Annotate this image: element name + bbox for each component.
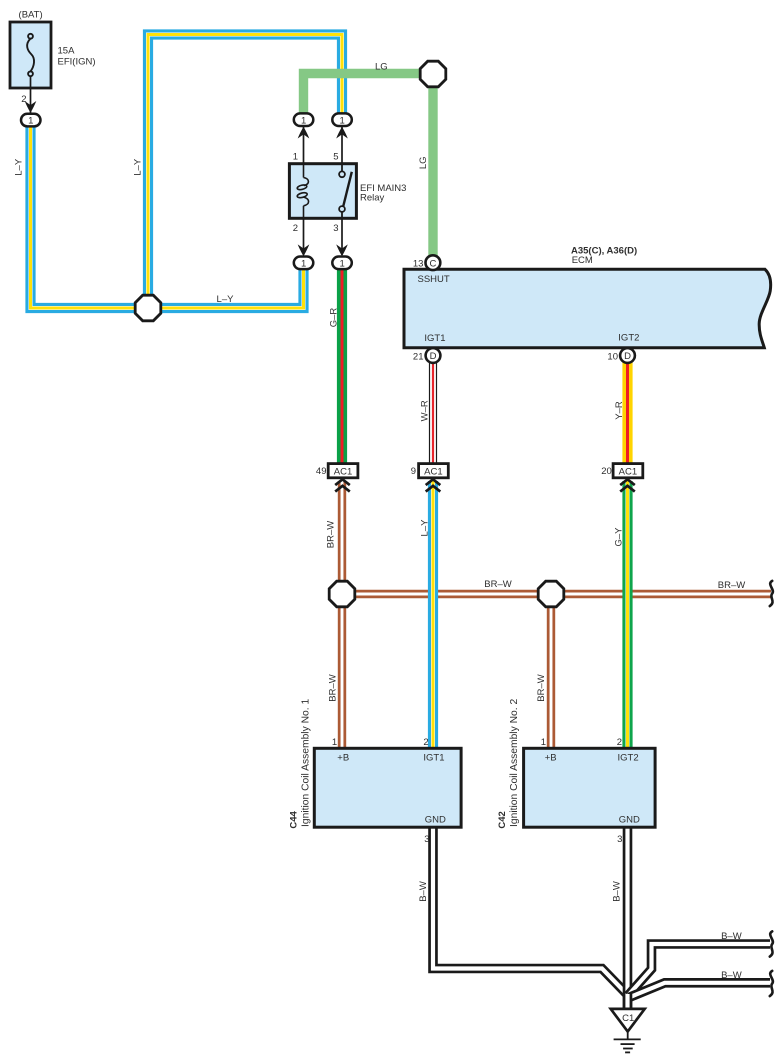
junction octagon BR-W no.2	[538, 581, 564, 607]
double chevron arrow below AC1-20	[620, 479, 635, 491]
svg-text:IGT1: IGT1	[424, 333, 445, 344]
break squiggle B-W lower right	[770, 971, 773, 996]
svg-text:1: 1	[293, 151, 298, 162]
svg-text:B–W: B–W	[611, 881, 622, 902]
junction octagon L-Y	[135, 295, 161, 321]
EFI MAIN3 relay box	[289, 164, 356, 219]
svg-text:2: 2	[423, 737, 428, 748]
svg-text:2: 2	[21, 94, 26, 105]
svg-text:13: 13	[413, 259, 424, 270]
svg-text:C44: C44	[289, 810, 300, 828]
connector oval 1 above relay pin 1	[294, 113, 314, 126]
fuse element symbol	[27, 34, 34, 76]
svg-text:B–W: B–W	[418, 881, 429, 902]
wire G-Y AC1-20 down to coil2 IGT2	[622, 481, 632, 748]
relay coil symbol	[297, 164, 309, 219]
svg-text:AC1: AC1	[424, 466, 442, 477]
svg-text:B–W: B–W	[721, 931, 742, 942]
svg-text:C42: C42	[497, 811, 508, 828]
svg-text:L–Y: L–Y	[420, 519, 431, 537]
connector circle 13 C	[426, 255, 441, 270]
svg-text:SSHUT: SSHUT	[418, 274, 450, 285]
earth ground symbol	[614, 1032, 641, 1053]
svg-text:GND: GND	[425, 815, 446, 826]
svg-text:3: 3	[617, 834, 622, 845]
svg-text:C1: C1	[622, 1013, 634, 1024]
connector AC1 no.9	[419, 464, 449, 478]
svg-text:G–R: G–R	[328, 308, 339, 328]
svg-text:D: D	[430, 351, 437, 362]
connector circle 10 D	[620, 348, 635, 363]
svg-text:3: 3	[333, 223, 338, 234]
svg-text:W–R: W–R	[419, 400, 430, 421]
connector circle 21 D	[426, 348, 441, 363]
svg-text:1: 1	[332, 737, 337, 748]
relay pin 1 lead and arrow up into connector	[303, 127, 305, 164]
svg-text:GND: GND	[619, 815, 640, 826]
relay switch symbol	[339, 164, 352, 219]
ignition coil assembly no.2 box C42	[524, 748, 656, 827]
svg-text:1: 1	[301, 258, 306, 269]
svg-text:1: 1	[541, 737, 546, 748]
svg-text:AC1: AC1	[619, 466, 637, 477]
wire B-W branch lower right to ground C1	[629, 983, 770, 998]
connector AC1 no.20	[613, 464, 643, 478]
svg-text:BR–W: BR–W	[536, 674, 547, 701]
break squiggle B-W upper right	[770, 931, 773, 956]
svg-text:Ignition Coil Assembly No. 2: Ignition Coil Assembly No. 2	[509, 699, 520, 827]
svg-text:IGT2: IGT2	[618, 333, 639, 344]
junction octagon BR-W no.1	[329, 581, 355, 607]
connector oval 1 below relay pin 2	[294, 257, 314, 270]
connector oval 1 above relay pin 5	[332, 113, 352, 126]
ignition coil assembly no.1 box C44	[314, 748, 461, 827]
junction octagon LG	[420, 61, 446, 87]
relay pin 3 lead and arrow down into connector	[341, 219, 343, 256]
svg-text:C: C	[429, 258, 436, 269]
relay pin 5 lead and arrow up into connector	[341, 127, 343, 172]
svg-text:2: 2	[617, 737, 622, 748]
svg-text:B–W: B–W	[721, 970, 742, 981]
arrow into fuse output connector	[25, 101, 37, 113]
svg-text:1: 1	[340, 258, 345, 269]
svg-text:Relay: Relay	[360, 192, 385, 203]
svg-text:AC1: AC1	[334, 466, 352, 477]
wire L-Y junction to relay pin5	[148, 35, 342, 309]
svg-text:5: 5	[333, 151, 338, 162]
svg-text:Ignition Coil Assembly No. 1: Ignition Coil Assembly No. 1	[301, 699, 312, 827]
svg-text:9: 9	[411, 466, 416, 477]
connector oval 1 below relay pin 3	[332, 257, 352, 270]
svg-text:(BAT): (BAT)	[19, 10, 43, 21]
connector oval 1 below fuse	[21, 114, 41, 127]
ECM box with torn right edge	[404, 269, 771, 347]
relay pin 2 lead and arrow down into connector	[303, 219, 305, 256]
wire B-W branch upper right to ground C1	[628, 944, 770, 996]
svg-text:L–Y: L–Y	[217, 294, 235, 305]
svg-text:+B: +B	[545, 753, 557, 764]
connector AC1 no.49	[328, 464, 358, 478]
wire G-R relay pin3 to AC1-49	[337, 269, 347, 464]
double chevron arrow below AC1-49	[335, 479, 350, 491]
svg-text:3: 3	[424, 834, 429, 845]
svg-text:G–Y: G–Y	[614, 527, 625, 547]
wire BR-W horizontal bus	[342, 590, 771, 598]
svg-text:49: 49	[316, 466, 327, 477]
wire BR-W junction2 down to coil2 +B	[547, 594, 555, 748]
svg-text:D: D	[624, 351, 631, 362]
wire W-R ECM pin21 to AC1-9	[429, 363, 437, 464]
svg-text:BR–W: BR–W	[325, 521, 336, 548]
svg-text:BR–W: BR–W	[484, 579, 511, 590]
svg-text:IGT1: IGT1	[423, 753, 444, 764]
svg-text:Y–R: Y–R	[614, 401, 625, 420]
svg-text:2: 2	[293, 223, 298, 234]
svg-text:ECM: ECM	[572, 255, 593, 266]
break squiggle BR-W right	[770, 581, 773, 606]
svg-text:1: 1	[28, 116, 33, 127]
svg-text:21: 21	[413, 351, 424, 362]
svg-text:1: 1	[340, 115, 345, 126]
svg-text:BR–W: BR–W	[328, 674, 339, 701]
svg-text:+B: +B	[337, 753, 349, 764]
svg-text:LG: LG	[418, 156, 429, 169]
svg-text:L–Y: L–Y	[13, 158, 24, 176]
svg-text:1: 1	[301, 115, 306, 126]
svg-text:L–Y: L–Y	[132, 158, 143, 176]
wire L-Y fuse to junction to relay pin2	[31, 126, 304, 308]
wire B-W merged into ground	[623, 994, 633, 1009]
svg-text:20: 20	[601, 466, 612, 477]
wire B-W coil2 GND straight down to ground C1	[623, 827, 633, 1010]
fuse 15A EFI(IGN) box	[10, 22, 51, 88]
svg-text:15A: 15A	[58, 46, 76, 57]
svg-text:10: 10	[607, 351, 618, 362]
svg-text:BR–W: BR–W	[718, 580, 745, 591]
wire LG relay pin1 to junction to ECM pin13	[304, 74, 434, 257]
wire BR-W AC1-49 down through junction to coil1 +B	[338, 481, 346, 748]
svg-text:EFI(IGN): EFI(IGN)	[58, 57, 96, 68]
double chevron arrow below AC1-9	[426, 479, 441, 491]
svg-text:IGT2: IGT2	[618, 753, 639, 764]
wire fuse pin 2 lead	[30, 76, 32, 114]
wire Y-R ECM pin10 to AC1-20	[622, 363, 632, 464]
wire L-Y AC1-9 down to coil1 IGT1	[428, 481, 438, 748]
ground connector C1 triangle	[611, 1009, 645, 1032]
svg-text:LG: LG	[375, 62, 388, 73]
wire B-W coil1 GND to ground C1	[433, 827, 628, 996]
